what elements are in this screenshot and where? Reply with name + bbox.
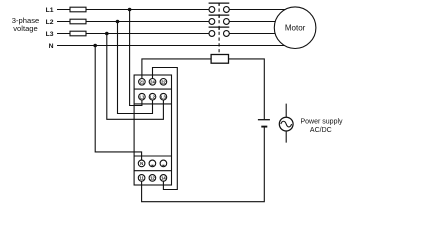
junction L1 tap xyxy=(128,8,132,12)
wire contactor coil to power supply xyxy=(229,59,265,119)
label: L2 xyxy=(46,19,54,26)
label: N xyxy=(49,43,54,50)
svg-text:L2: L2 xyxy=(46,19,54,26)
contactor coil K1 xyxy=(211,55,228,64)
fuse F2 xyxy=(70,19,86,24)
wire line L2 xyxy=(57,21,278,23)
svg-text:L3: L3 xyxy=(46,31,54,38)
terminal L3 xyxy=(160,93,167,100)
svg-text:L1: L1 xyxy=(46,7,54,14)
terminal blank 1 xyxy=(149,160,156,167)
relay bottom terminal block top edge xyxy=(134,155,171,157)
svg-text:N: N xyxy=(49,43,54,50)
junction N tap xyxy=(93,44,97,48)
AC source symbol xyxy=(279,104,293,143)
wire line L3 xyxy=(57,33,277,35)
svg-text:11: 11 xyxy=(139,176,144,181)
svg-text:L1: L1 xyxy=(139,94,145,99)
svg-text:AC/DC: AC/DC xyxy=(310,127,332,134)
wire L3 tap to relay terminal L3 xyxy=(107,34,164,120)
junction L2 tap xyxy=(116,20,120,24)
svg-text:voltage: voltage xyxy=(13,24,38,33)
svg-text:12: 12 xyxy=(150,176,155,181)
terminal N xyxy=(138,160,145,167)
svg-text:24: 24 xyxy=(150,79,155,84)
relay U1 body xyxy=(134,75,171,185)
svg-text:Power supply: Power supply xyxy=(301,118,344,125)
wire N tap to relay terminal N xyxy=(95,46,141,161)
svg-text:14: 14 xyxy=(161,176,166,181)
terminal 11 xyxy=(138,175,145,182)
svg-text:22: 22 xyxy=(161,79,166,84)
wire power supply return to terminal 11 xyxy=(142,128,265,202)
battery (DC supply) xyxy=(258,120,270,127)
svg-text:L3: L3 xyxy=(161,94,167,99)
wire L1 tap to relay terminal L1 xyxy=(130,10,142,106)
relay bottom terminal block divider xyxy=(134,170,171,172)
terminal 12 xyxy=(149,175,156,182)
label: 3-phase voltage xyxy=(12,16,39,33)
junction L3 tap xyxy=(105,32,109,36)
terminal blank 2 xyxy=(160,160,167,167)
contactor K1 pole 1 xyxy=(209,3,230,12)
wire relay terminal 21 to contactor coil xyxy=(142,59,211,79)
contactor mechanical link (dashed) xyxy=(218,9,220,54)
terminal 21 xyxy=(139,79,146,86)
contactor K1 pole 2 xyxy=(209,15,230,24)
relay top terminal block bottom edge xyxy=(134,103,171,105)
fuse F1 xyxy=(70,7,86,12)
svg-text:L2: L2 xyxy=(150,94,156,99)
terminal L1 xyxy=(139,93,146,100)
terminal 14 xyxy=(160,175,167,182)
wire line N xyxy=(57,45,285,47)
label: Power supply AC/DC xyxy=(301,118,344,134)
relay top terminal block divider xyxy=(134,88,171,90)
wire terminal 24 to terminal 14 xyxy=(153,68,178,190)
svg-text:Motor: Motor xyxy=(285,23,306,32)
terminal 22 xyxy=(160,79,167,86)
wire line L1 xyxy=(57,9,287,11)
label: L1 xyxy=(46,7,54,14)
fuse F3 xyxy=(70,31,86,36)
svg-text:N: N xyxy=(140,161,143,166)
wire L2 tap to relay terminal L2 xyxy=(118,22,153,114)
motor M xyxy=(274,7,316,49)
terminal 24 xyxy=(149,79,156,86)
terminal L2 xyxy=(149,93,156,100)
label: L3 xyxy=(46,31,54,38)
contactor K1 pole 3 xyxy=(209,27,230,36)
svg-text:21: 21 xyxy=(140,79,145,84)
